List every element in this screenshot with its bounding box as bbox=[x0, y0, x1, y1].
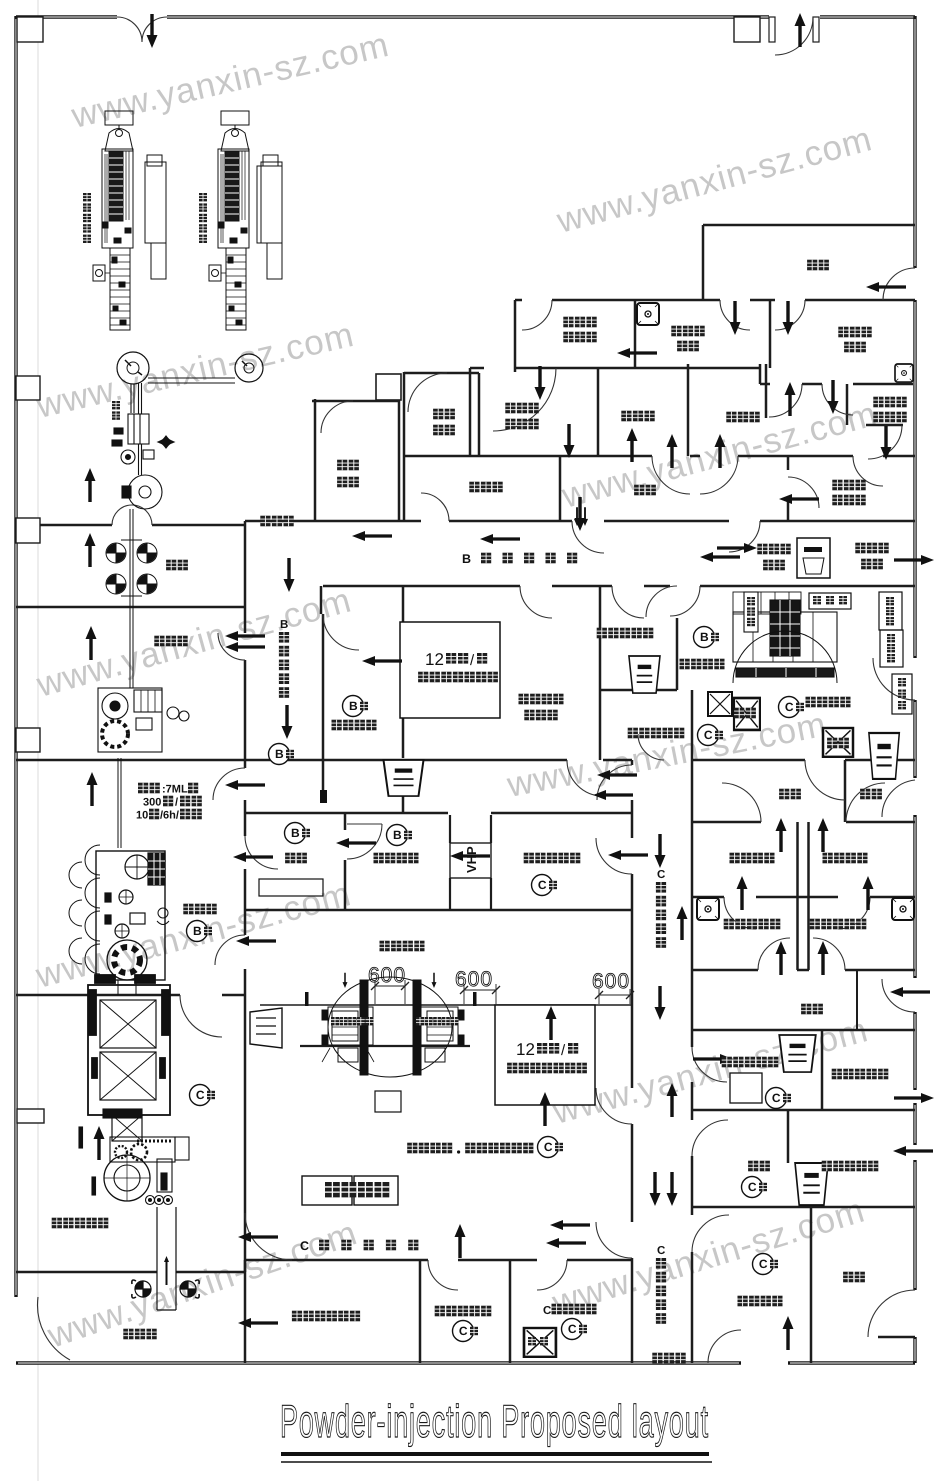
svg-text:300: 300 bbox=[143, 796, 161, 808]
sterilizer niche walls bbox=[260, 1004, 632, 1006]
svg-text:B: B bbox=[280, 619, 288, 631]
equipment bbox=[730, 1073, 762, 1103]
svg-text:C: C bbox=[657, 1245, 665, 1257]
room labels bbox=[528, 1337, 536, 1345]
capping machine bbox=[98, 688, 189, 752]
turntable 2 bbox=[235, 354, 263, 382]
svg-text:B: B bbox=[462, 552, 471, 566]
outer left wall bbox=[14, 16, 17, 1297]
cabinet name rows bbox=[331, 1017, 339, 1025]
svg-text:600: 600 bbox=[368, 964, 406, 987]
outer right wall bbox=[913, 16, 916, 1363]
sterilizer cabinet left bbox=[322, 980, 374, 1075]
svg-text:/6h/: /6h/ bbox=[160, 809, 179, 821]
niche box bbox=[376, 374, 401, 400]
filling machine bbox=[69, 845, 169, 995]
pilaster columns bbox=[16, 17, 760, 1123]
outer bottom wall bbox=[16, 1361, 915, 1364]
faint scan line bbox=[37, 0, 39, 1481]
svg-text:600: 600 bbox=[455, 968, 493, 991]
turntable 1 bbox=[117, 352, 149, 384]
svg-text:C: C bbox=[657, 869, 665, 881]
stopper washer-sterilizer box bbox=[495, 1005, 595, 1105]
cartoner machine 2 bbox=[209, 111, 282, 330]
svg-text:C: C bbox=[543, 1305, 551, 1317]
utensil washing benches bbox=[302, 1176, 352, 1205]
laundry machines bbox=[733, 592, 837, 683]
interior horizontal walls bbox=[16, 225, 915, 1337]
VHP pass box bbox=[450, 815, 491, 910]
svg-text:VHP: VHP bbox=[464, 846, 479, 873]
svg-text:600: 600 bbox=[592, 970, 630, 993]
interior vertical walls bbox=[245, 225, 847, 1363]
cartoner machine 1 bbox=[93, 111, 166, 330]
flow arrows bbox=[94, 1126, 105, 1160]
closet in gengxie room bbox=[856, 970, 858, 1030]
svg-text::7ML: :7ML bbox=[162, 783, 188, 795]
sterilizer swing ellipse bbox=[328, 977, 452, 1077]
outer walls (double line) bbox=[16, 15, 915, 18]
svg-text:12: 12 bbox=[516, 1040, 535, 1059]
svg-text:12: 12 bbox=[425, 650, 444, 669]
bottle washer bbox=[79, 1109, 189, 1310]
labeling machine bbox=[112, 414, 174, 848]
svg-text:Powder-injection Proposed layo: Powder-injection Proposed layout bbox=[280, 1395, 709, 1447]
bottle sorting stools bbox=[132, 1280, 199, 1298]
svg-text:C: C bbox=[300, 1239, 309, 1253]
svg-text:/: / bbox=[175, 796, 178, 808]
wall end cap bbox=[320, 790, 327, 803]
autoclave bbox=[88, 975, 170, 1141]
cap washer-sterilizer box bbox=[400, 622, 500, 718]
top-right door jambs bbox=[769, 17, 775, 42]
svg-text:10: 10 bbox=[136, 809, 148, 821]
dimension line 600 bbox=[375, 986, 630, 995]
inspection pinwheels bbox=[106, 540, 157, 596]
sterilizer cabinet right bbox=[413, 980, 464, 1075]
